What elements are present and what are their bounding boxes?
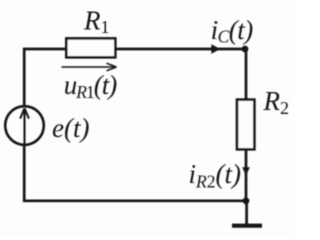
svg-text:uR1(t): uR1(t) [64,70,117,102]
svg-text:e(t): e(t) [52,113,89,143]
wire right vertical upper [245,49,248,100]
ground stub [245,201,248,224]
ground bar [232,224,262,228]
svg-text:R2: R2 [263,86,290,118]
svg-text:R1: R1 [83,6,110,38]
resistor R2 [237,100,254,150]
svg-text:iC(t): iC(t) [211,15,254,47]
wire bottom horizontal [24,199,246,202]
voltage source arrow shaft [23,111,25,144]
wire left vertical upper [23,48,26,107]
voltage source e(t) circle [5,106,44,145]
node bottom-right [243,197,250,204]
i_R2 current arrowhead [242,167,250,176]
svg-text:iR2(t): iR2(t) [189,159,241,191]
voltage source arrowhead [20,108,29,118]
wire right vertical lower [245,149,248,201]
node top-right [242,46,249,53]
wire left vertical lower [23,145,26,203]
i_C current arrowhead [211,44,220,54]
wire top horizontal [24,48,245,51]
resistor R1 [66,38,115,57]
u_R1 reference arrow [62,63,117,71]
